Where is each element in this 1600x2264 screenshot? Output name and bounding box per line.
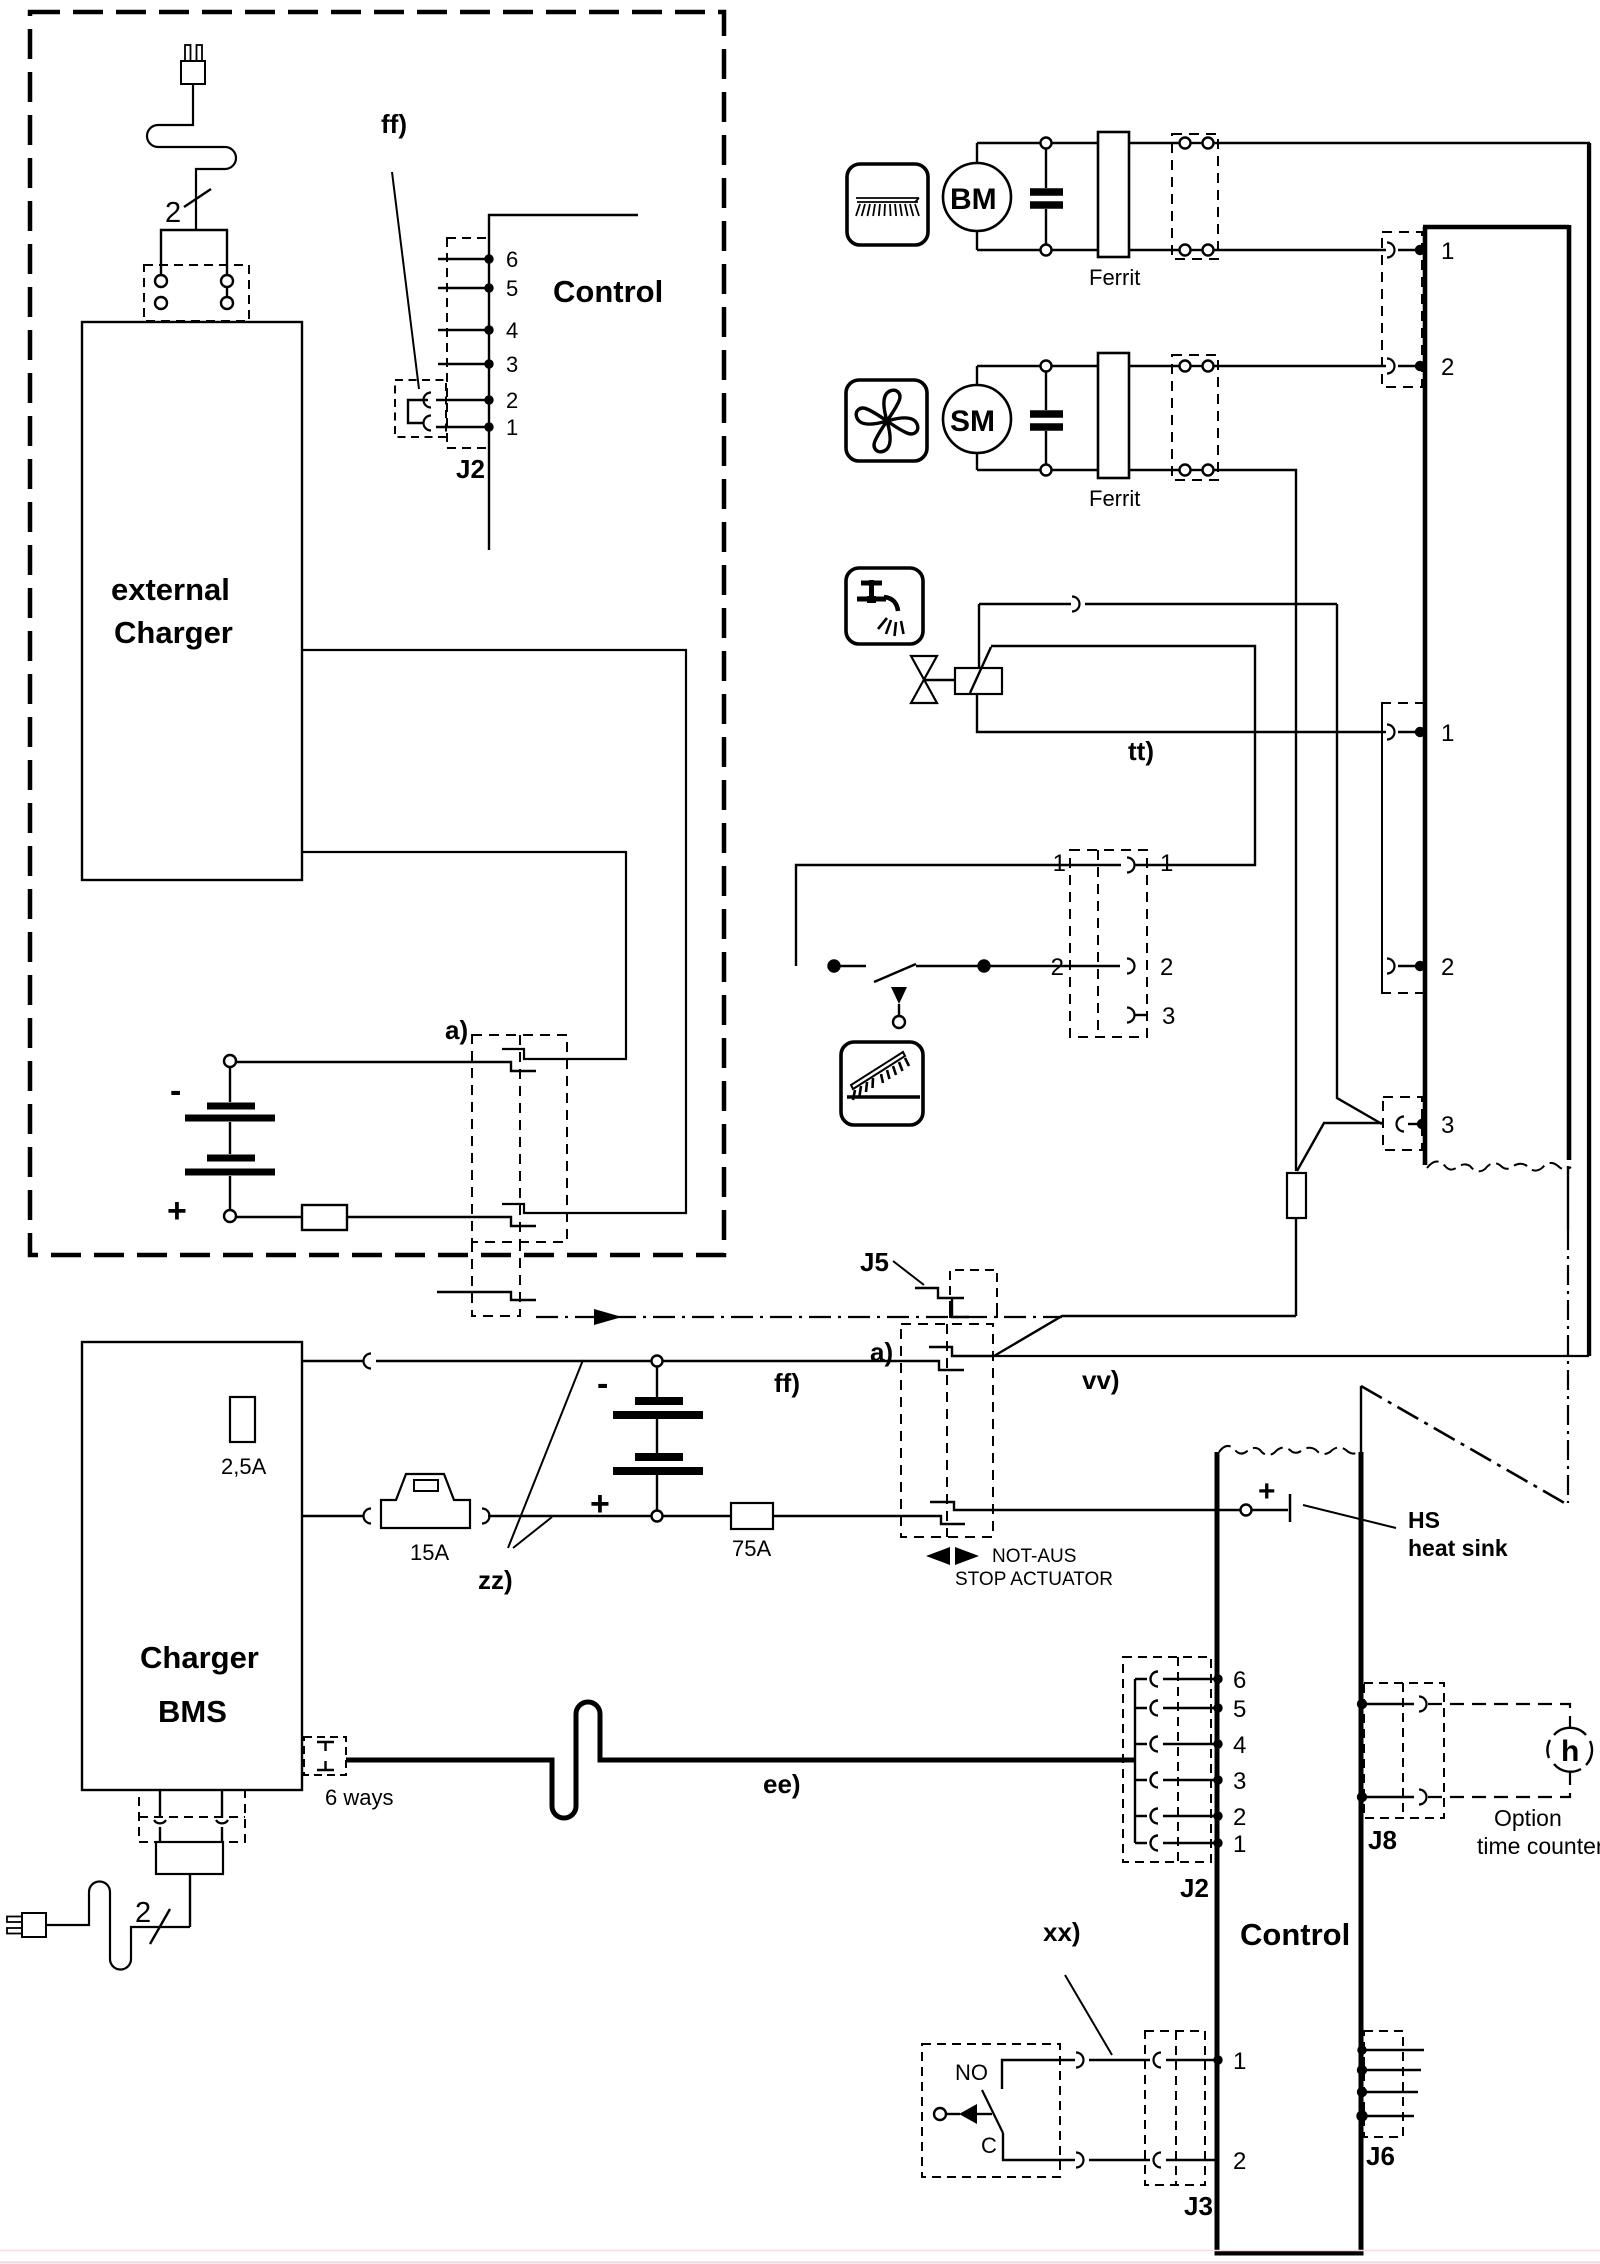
battery B2 (+) node — [652, 1511, 663, 1522]
BM wires to rail — [976, 143, 978, 163]
Control unit (upper, partial outline) — [489, 215, 638, 550]
svg-text:tt): tt) — [1128, 736, 1154, 766]
fuse F1 — [302, 1205, 347, 1230]
wire valve top feed — [978, 604, 980, 668]
vv junction diagonal — [994, 1316, 1296, 1356]
svg-text:SM: SM — [950, 405, 995, 438]
svg-text:1: 1 — [1441, 720, 1454, 747]
ferrite FB2 — [1098, 353, 1129, 478]
inlet contact circles — [155, 275, 167, 287]
J3 pin 2 — [1154, 2153, 1162, 2168]
solenoid valve coil — [955, 668, 1002, 694]
mains plug P1 — [181, 45, 205, 84]
svg-text:J5: J5 — [860, 1247, 889, 1277]
svg-text:6: 6 — [506, 247, 518, 272]
BMS bottom connector dashed box — [139, 1790, 245, 1842]
battery B2 plates — [613, 1401, 703, 1471]
mains cord to charger — [147, 84, 236, 230]
fan blades — [856, 390, 918, 452]
svg-text:3: 3 — [1233, 1768, 1246, 1795]
svg-text:h: h — [1561, 1735, 1579, 1768]
brush icon — [847, 164, 928, 245]
svg-text:2: 2 — [1160, 954, 1173, 981]
15A fuse holder left contact — [364, 1509, 371, 1524]
node on SM top wire — [1041, 361, 1052, 372]
J2 upper pin 4 — [438, 329, 489, 331]
J3 pin 1 — [1154, 2053, 1162, 2068]
J5 contacts — [915, 1288, 964, 1298]
faucet symbol — [857, 580, 898, 611]
brush lift icon — [841, 1042, 923, 1125]
svg-text:75A: 75A — [732, 1536, 771, 1561]
key switch blade — [982, 2090, 1003, 2133]
SM connector contacts top — [1129, 365, 1179, 367]
ferrite FB1 — [1098, 132, 1129, 257]
svg-text:6: 6 — [1233, 1667, 1246, 1694]
J8 pin A — [1358, 1700, 1366, 1708]
svg-text:STOP ACTUATOR: STOP ACTUATOR — [955, 1569, 1113, 1590]
svg-text:ee): ee) — [763, 1769, 801, 1799]
board connector (motors) dashed box — [1382, 232, 1422, 387]
power board (upper control) thick outline — [1423, 225, 1569, 1165]
battery B1 (-) node — [224, 1055, 236, 1067]
svg-text:J2: J2 — [1180, 1873, 1209, 1903]
wire battery plus to fuse to connector a) — [236, 1216, 302, 1218]
J2 lower pin 4 — [1135, 1737, 1217, 1752]
key switch dashed box — [922, 2044, 1060, 2177]
svg-text:zz): zz) — [478, 1565, 513, 1595]
svg-text:2: 2 — [1051, 954, 1064, 981]
NOT-AUS actuator arrows — [926, 1547, 950, 1565]
battery B1 plates — [185, 1106, 275, 1172]
svg-text:1: 1 — [1441, 238, 1454, 265]
Control unit (lower) box — [1215, 1452, 1364, 2253]
connector J3 dashed box — [1145, 2031, 1205, 2185]
wire to mains cord — [189, 1874, 191, 1927]
svg-text:+: + — [1258, 1475, 1276, 1508]
J2 upper pin 2 — [436, 399, 489, 401]
lever switch right node — [916, 965, 978, 967]
svg-text:HS: HS — [1408, 1507, 1440, 1533]
fuse holder 15A body — [381, 1474, 470, 1528]
svg-text:J6: J6 — [1366, 2141, 1395, 2171]
dash-dot link wire with arrow — [536, 1316, 1062, 1318]
inline connector X1 dashed box — [1070, 850, 1147, 1037]
connector J5 dashed box — [950, 1270, 997, 1310]
brush motor BM — [943, 163, 1011, 231]
svg-text:2: 2 — [506, 388, 518, 413]
battery B1 (+) node — [224, 1210, 236, 1222]
svg-text:5: 5 — [506, 276, 518, 301]
wire SM bottom to resistor line — [1214, 470, 1297, 1171]
svg-text:2: 2 — [1233, 1804, 1246, 1831]
svg-text:Control: Control — [1240, 1917, 1350, 1952]
wire ff from BMS — [302, 1360, 364, 1362]
svg-text:2: 2 — [1233, 2148, 1246, 2175]
suction motor SM — [943, 385, 1011, 453]
svg-text:+: + — [167, 1192, 187, 1230]
svg-text:6 ways: 6 ways — [325, 1785, 393, 1810]
svg-text:NO: NO — [955, 2060, 988, 2085]
switch actuator roller — [893, 1016, 905, 1028]
6 ways contacts — [317, 1742, 334, 1751]
connector a) below border, contact — [437, 1292, 536, 1300]
lever switch left node — [829, 961, 840, 972]
board pin 2 (switch) — [1387, 959, 1395, 974]
15A fuse holder right contact — [482, 1509, 490, 1524]
wire water feed down to pin 3 — [1337, 604, 1382, 1124]
connector a) lower dashed box — [901, 1324, 993, 1537]
J2 upper pin 1 — [436, 426, 489, 428]
svg-text:5: 5 — [1233, 1696, 1246, 1723]
connector J8 dashed box — [1364, 1683, 1444, 1818]
board connector (accessories) dashed box — [1382, 703, 1425, 993]
fuse F75 — [731, 1503, 773, 1529]
mains cord (BMS) — [46, 1882, 190, 1970]
connector J2 (lower) dashed box — [1123, 1657, 1211, 1862]
lever switch blade — [874, 964, 916, 982]
svg-text:a): a) — [445, 1015, 468, 1045]
svg-text:time counter: time counter — [1477, 1833, 1600, 1859]
wire resistor bottom — [1295, 1218, 1297, 1316]
HS heat sink leader — [1303, 1505, 1396, 1528]
board pin 1 (tt) — [1387, 725, 1395, 740]
svg-text:C: C — [981, 2133, 997, 2158]
a) contact: plus in — [773, 1516, 965, 1524]
board pin 1 (BM) — [1387, 243, 1395, 258]
svg-text:2,5A: 2,5A — [221, 1454, 267, 1479]
node on SM bottom wire — [1041, 465, 1052, 476]
svg-text:3: 3 — [1441, 1112, 1454, 1139]
wire fuse to battery plus — [488, 1515, 651, 1517]
J2 upper pin 5 — [438, 287, 489, 289]
ff) jumper bracket — [408, 400, 428, 423]
charger inlet connector dashed box — [144, 265, 249, 321]
svg-text:3: 3 — [506, 352, 518, 377]
wire battery minus to connector a) — [236, 1062, 536, 1071]
J6 pin lines — [1359, 2047, 1366, 2054]
fan icon — [846, 380, 927, 461]
svg-text:J8: J8 — [1368, 1825, 1397, 1855]
wire BMS to 15A fuse — [302, 1515, 364, 1517]
resistor R1 — [1287, 1173, 1306, 1218]
svg-text:vv): vv) — [1082, 1365, 1120, 1395]
svg-text:ff): ff) — [774, 1368, 800, 1398]
J2 lower bracket — [1134, 1679, 1136, 1843]
SM connector contacts bottom — [1129, 469, 1179, 471]
NO contact connector pair — [1076, 2053, 1084, 2068]
fuse 2,5A — [230, 1397, 255, 1442]
connector J6 dashed box — [1364, 2031, 1403, 2137]
connector contact on water feed — [1072, 597, 1080, 612]
wire vv) — [994, 143, 1588, 1356]
svg-text:2: 2 — [135, 1897, 151, 1929]
svg-text:Control: Control — [553, 274, 663, 309]
J2 upper pin 3 — [438, 363, 489, 365]
X1 pin 2 contact — [1127, 959, 1135, 974]
NO contact wire — [1002, 2060, 1075, 2089]
X1 pin 3 contact — [1127, 1008, 1135, 1023]
wire solenoid bottom (tt) — [977, 694, 1386, 732]
battery B2 (-) node — [652, 1356, 663, 1367]
water valve (bowtie) — [911, 656, 937, 703]
X1 pin 1 contact — [1127, 858, 1135, 873]
svg-text:1: 1 — [1053, 850, 1066, 877]
charger enclosure dashed border — [30, 12, 724, 1255]
HS plus terminal — [1241, 1505, 1252, 1516]
svg-text:2: 2 — [165, 197, 181, 229]
wire charger to connector a) lower contact — [302, 650, 686, 1213]
scan artifact lines — [0, 2250, 1600, 2252]
heat sink plate outline — [1360, 1386, 1362, 1452]
wire BM rail right side down — [1589, 143, 1591, 1356]
external Charger box — [82, 322, 302, 880]
board pin 3 dashed box — [1383, 1097, 1422, 1150]
svg-text:external: external — [111, 572, 230, 607]
C contact wire — [1003, 2133, 1075, 2160]
svg-text:a): a) — [870, 1337, 893, 1367]
torn edge of power board — [1427, 1161, 1571, 1171]
svg-text:BMS: BMS — [158, 1694, 227, 1729]
BM connector contacts bottom — [1129, 249, 1179, 251]
key switch actuator — [934, 2108, 946, 2120]
J2 lower pin 2 — [1135, 1809, 1217, 1824]
wire resistor to pin3 — [1297, 1123, 1382, 1171]
BMS bottom connector contacts — [159, 1790, 161, 1818]
J2 lower pin 6 — [1135, 1672, 1217, 1687]
svg-text:2: 2 — [1441, 354, 1454, 381]
switch actuator triangle — [891, 987, 907, 1004]
svg-text:1: 1 — [1233, 2048, 1246, 2075]
ff) mating plug on J2 pins 1-2, dashed box — [395, 380, 446, 437]
svg-text:3: 3 — [1162, 1003, 1175, 1030]
wire solenoid coil to lever switch — [991, 646, 1255, 865]
connector (BM) dashed box — [1172, 134, 1218, 259]
svg-text:4: 4 — [506, 318, 518, 343]
BM connector contacts top — [1129, 142, 1179, 144]
control cable ee) — [346, 1702, 1135, 1818]
svg-text:1: 1 — [506, 415, 518, 440]
SM wires — [976, 366, 978, 385]
svg-text:+: + — [590, 1485, 610, 1523]
capacitor C2 — [1045, 372, 1047, 411]
node on BM top wire — [1041, 138, 1052, 149]
a) contact: ff in — [376, 1361, 964, 1370]
J2 lower pin 1 — [1135, 1836, 1217, 1851]
svg-text:Charger: Charger — [114, 615, 233, 650]
wire charger to connector a) upper contact — [302, 852, 626, 1059]
arrowhead — [594, 1309, 622, 1325]
svg-text:Ferrit: Ferrit — [1089, 265, 1140, 290]
svg-text:1: 1 — [1233, 1831, 1246, 1858]
connector 6 ways dashed box — [304, 1737, 346, 1775]
BMS mains connector body — [156, 1842, 223, 1874]
connector (SM) dashed box — [1172, 355, 1218, 480]
svg-text:Ferrit: Ferrit — [1089, 486, 1140, 511]
mains plug P2 — [7, 1913, 46, 1937]
svg-text:J2: J2 — [456, 454, 485, 484]
water tap icon — [846, 568, 923, 644]
svg-text:J3: J3 — [1184, 2191, 1213, 2221]
svg-text:ff): ff) — [381, 109, 407, 139]
J2 lower pin 5 — [1135, 1701, 1217, 1716]
board pin 3 contact — [1397, 1117, 1404, 1132]
svg-text:Charger: Charger — [140, 1640, 259, 1675]
svg-text:Option: Option — [1494, 1805, 1562, 1831]
svg-text:NOT-AUS: NOT-AUS — [992, 1546, 1076, 1567]
svg-text:BM: BM — [950, 183, 997, 216]
svg-text:-: - — [170, 1072, 181, 1110]
J2 lower pin 3 — [1135, 1773, 1217, 1788]
svg-text:2: 2 — [1441, 954, 1454, 981]
svg-text:heat sink: heat sink — [1408, 1535, 1508, 1561]
hour meter wiring dashed — [1428, 1704, 1570, 1727]
node on BM bottom wire — [1041, 245, 1052, 256]
J2 upper pin 6 — [438, 258, 489, 260]
svg-text:15A: 15A — [410, 1540, 449, 1565]
a) contact: plus out — [930, 1502, 1240, 1510]
charger inlet connector body — [161, 230, 227, 279]
svg-text:-: - — [597, 1365, 608, 1403]
Charger BMS box — [82, 1342, 302, 1790]
a) contact: vv out — [929, 1347, 994, 1356]
hour counter h — [1547, 1728, 1592, 1772]
J8 pin B — [1358, 1793, 1366, 1801]
Control unit (lower) torn top edge — [1219, 1446, 1359, 1455]
capacitor C1 — [1045, 149, 1047, 189]
dash-dot continuation below power board — [1567, 1166, 1569, 1230]
connector J2 (upper) dashed box — [447, 238, 489, 448]
svg-text:xx): xx) — [1043, 1917, 1081, 1947]
svg-text:4: 4 — [1233, 1732, 1246, 1759]
ff wire connector contact — [364, 1354, 371, 1369]
svg-text:1: 1 — [1160, 850, 1173, 877]
tilted brush — [851, 1052, 909, 1100]
board pin 2 (SM) — [1387, 359, 1395, 374]
